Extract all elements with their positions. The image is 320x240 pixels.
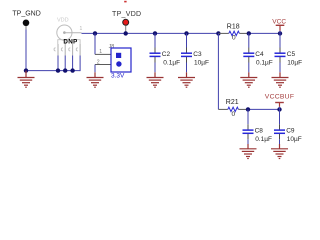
capacitor C4 (243, 33, 272, 72)
svg-text:10µF: 10µF (287, 59, 302, 66)
node junction bus / R18 / branch down (216, 31, 220, 35)
svg-text:VCC: VCC (272, 18, 286, 25)
testpoint TP_GND label (12, 11, 40, 18)
node junction R18 / C4 (247, 31, 251, 35)
connector J8 refdes (109, 44, 115, 50)
capacitor C8 (243, 109, 272, 148)
svg-text:0.1µF: 0.1µF (255, 136, 272, 143)
ground GND at C3 (178, 72, 195, 87)
svg-text:10µF: 10µF (194, 59, 209, 66)
ground GND at TP_GND (18, 71, 35, 88)
testpoint TP_VDD pad (123, 19, 129, 31)
svg-text:1: 1 (99, 49, 102, 55)
DNP pins down (gray upper part) (58, 44, 80, 56)
capacitor C9 (274, 109, 302, 148)
svg-text:1: 1 (80, 26, 83, 32)
node junction DNP pin4 (70, 68, 74, 72)
ground GND at C5 (272, 72, 289, 87)
ground GND at C8 (240, 144, 257, 159)
node junction bus / C3 (184, 31, 188, 35)
svg-text:C3: C3 (193, 51, 202, 58)
testpoint TP_VDD label (112, 11, 141, 18)
wire J8 pin1 vertical (94, 33, 96, 54)
DNP text (63, 38, 77, 45)
wire DNP pins to GND bus (58, 56, 80, 72)
DNP body lower outline (58, 40, 80, 44)
svg-text:C8: C8 (255, 127, 264, 134)
node junction DNP pin2 (56, 68, 60, 72)
wire GND bus horizontal (26, 70, 81, 72)
svg-text:R21: R21 (226, 99, 239, 106)
connector J8 body (111, 48, 131, 72)
svg-text:0.1µF: 0.1µF (256, 59, 273, 66)
svg-text:VDD: VDD (57, 18, 69, 24)
power VCC symbol (272, 18, 286, 33)
svg-text:TP_VDD: TP_VDD (112, 11, 141, 18)
node junction bus / J8 pin1 (93, 31, 97, 35)
svg-text:VCCBUF: VCCBUF (265, 94, 294, 101)
svg-text:C2: C2 (162, 51, 171, 58)
power VCCBUF symbol (265, 94, 294, 110)
capacitor C2 (150, 33, 181, 72)
wire R21 to VCCBUF (248, 108, 280, 110)
DNP testpoint VDD label (not populated, gray) (57, 18, 69, 24)
svg-text:3.3V: 3.3V (111, 73, 125, 80)
capacitor C5 (275, 33, 303, 72)
marker red tick top (124, 1, 126, 3)
svg-text:0: 0 (232, 35, 236, 42)
svg-text:0.1µF: 0.1µF (163, 59, 180, 66)
capacitor C3 (181, 33, 209, 72)
testpoint TP_GND pad (23, 20, 30, 30)
connector J8 value 3.3V (111, 73, 125, 80)
connector J8 pin 1 line (95, 49, 111, 55)
node junction bus / TP_VDD (124, 31, 128, 35)
svg-text:C4: C4 (255, 51, 264, 58)
svg-text:C5: C5 (287, 51, 296, 58)
ground GND at C2 (147, 72, 164, 87)
node junction C9 / VCCBUF (277, 107, 281, 111)
wire R18 to VCC (249, 32, 280, 34)
node junction DNP pin3 (63, 68, 67, 72)
node junction bus / C2 (153, 31, 157, 35)
wire branch down to R21 (217, 33, 219, 109)
svg-text:10µF: 10µF (287, 136, 302, 143)
svg-text:0: 0 (232, 111, 236, 118)
DNP pin name squiggles (54, 48, 78, 51)
DNP component body circle (57, 25, 72, 40)
node junction R21 / C8 (246, 107, 250, 111)
ground GND at J8 (87, 72, 104, 87)
ground GND at C4 (240, 72, 257, 87)
wire VDD bus horizontal (82, 32, 219, 34)
wire J8 pin2 to ground (94, 65, 96, 73)
svg-text:R18: R18 (227, 23, 240, 30)
node junction C5 / VCC (278, 31, 282, 35)
svg-text:2: 2 (97, 59, 100, 65)
wire TP_GND vertical (25, 30, 27, 71)
resistor R18 (218, 23, 248, 41)
svg-text:C9: C9 (286, 127, 295, 134)
connector J8 pin 2 line (95, 59, 111, 65)
DNP pin 1 line and number (64, 26, 82, 33)
node GND junction at TP_GND (24, 68, 28, 72)
resistor R21 (218, 99, 248, 118)
svg-text:TP_GND: TP_GND (12, 11, 40, 18)
ground GND at C9 (271, 144, 288, 159)
